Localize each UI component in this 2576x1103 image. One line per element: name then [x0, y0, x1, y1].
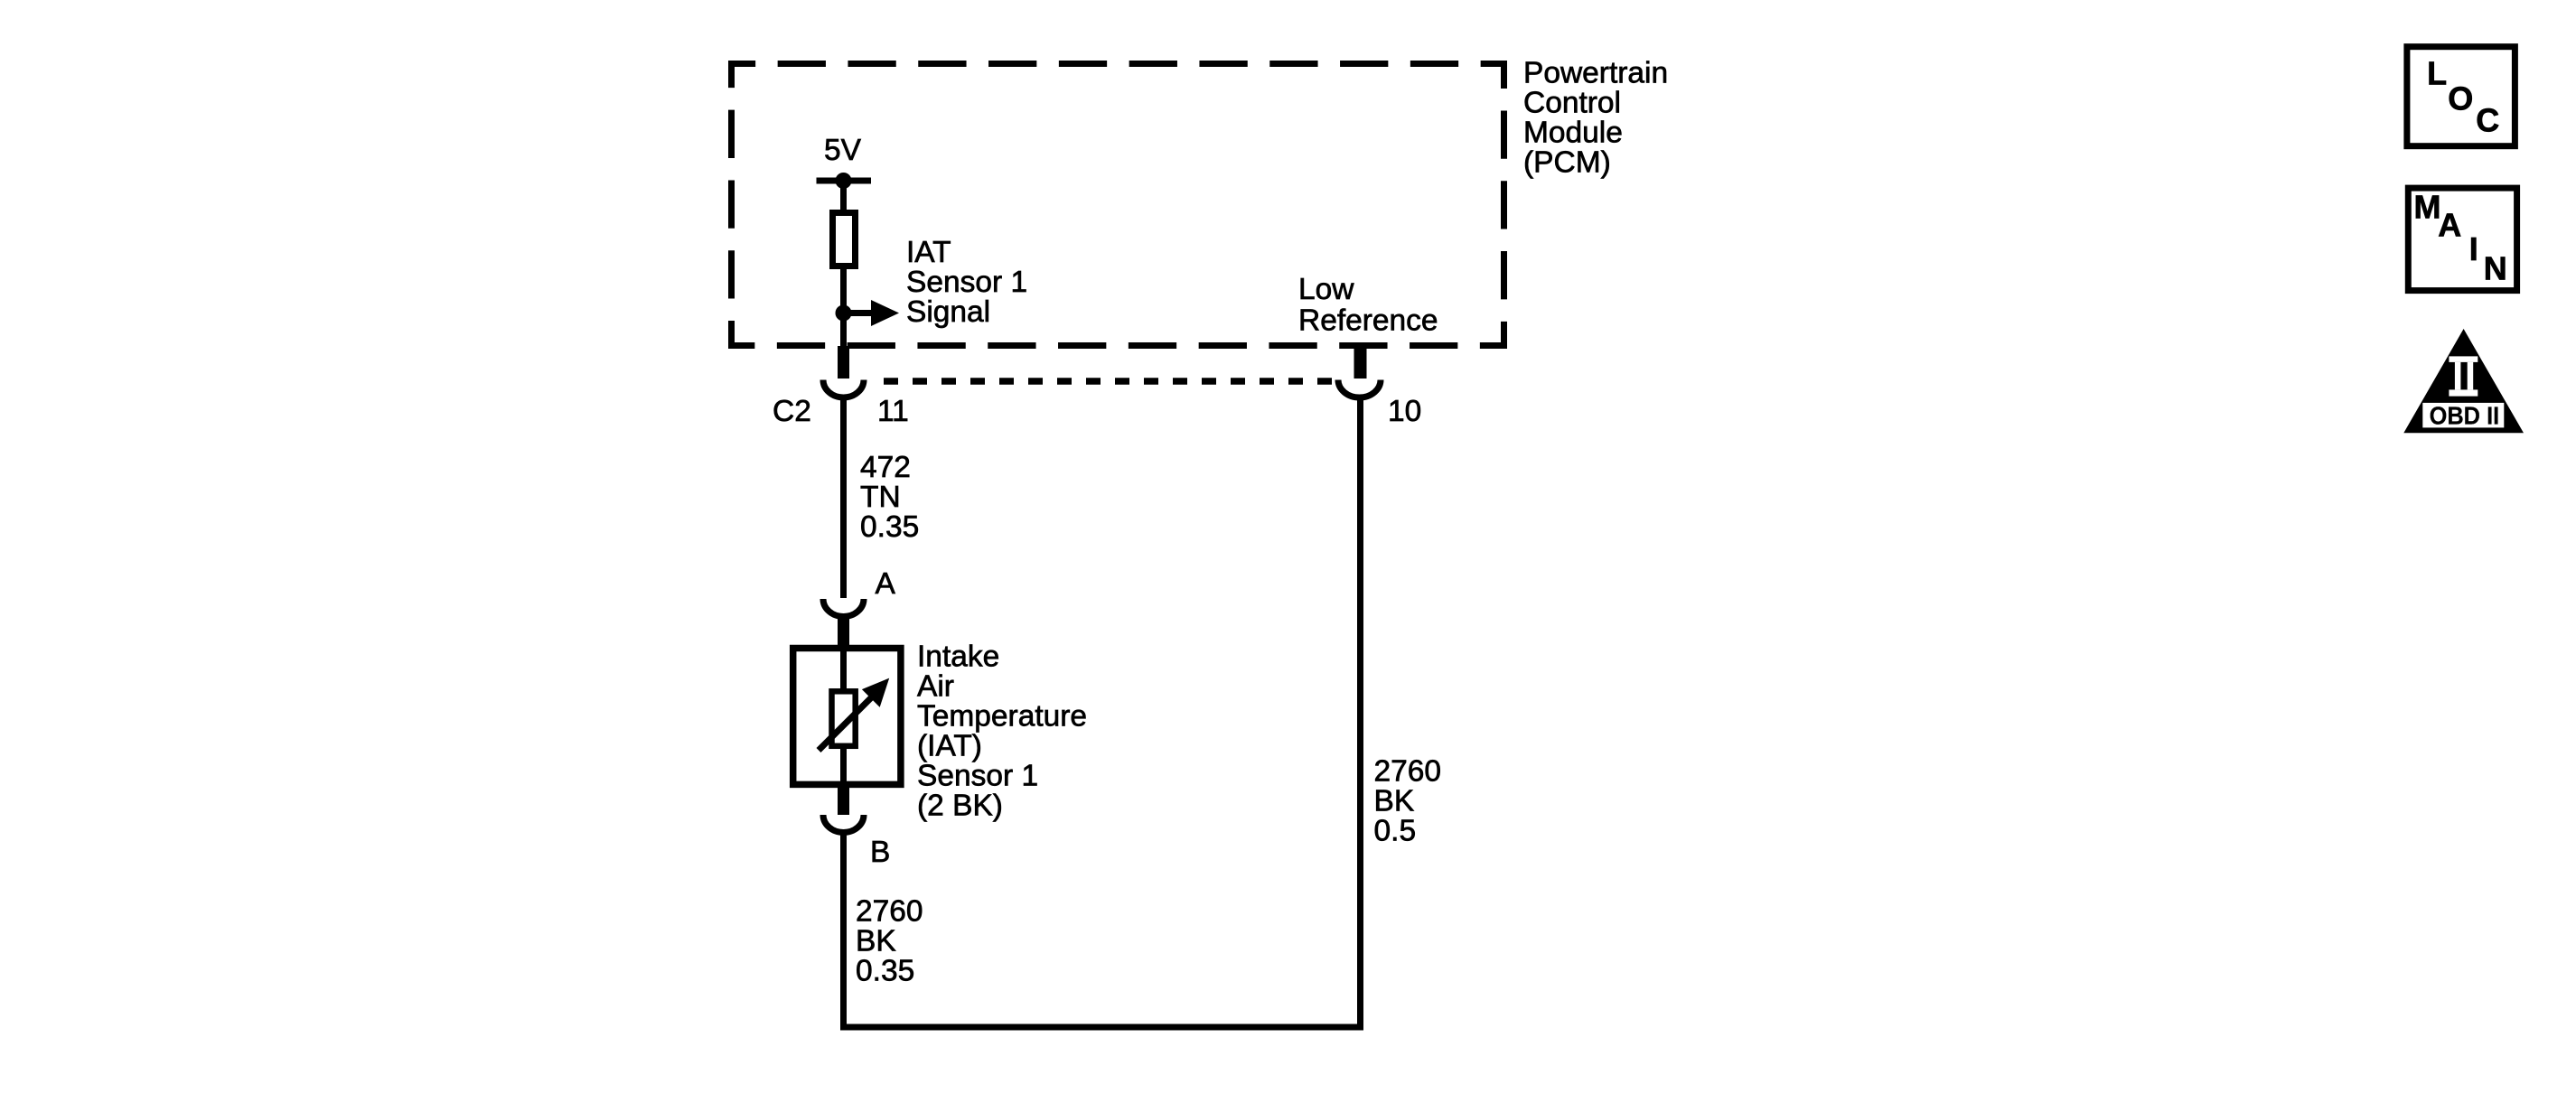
svg-text:Powertrain: Powertrain: [1523, 57, 1668, 90]
svg-text:C: C: [2476, 102, 2499, 139]
svg-text:BK: BK: [856, 925, 896, 958]
svg-text:(PCM): (PCM): [1523, 146, 1611, 180]
svg-text:BK: BK: [1374, 785, 1415, 818]
svg-text:Sensor 1: Sensor 1: [917, 760, 1038, 793]
svg-text:Signal: Signal: [906, 295, 990, 329]
svg-text:10: 10: [1388, 395, 1421, 428]
svg-text:5V: 5V: [824, 134, 862, 167]
svg-text:2760: 2760: [1374, 755, 1442, 789]
svg-text:11: 11: [877, 395, 909, 428]
svg-text:OBD II: OBD II: [2430, 401, 2500, 429]
svg-text:Intake: Intake: [917, 640, 999, 674]
svg-text:B: B: [870, 836, 890, 869]
svg-text:(2 BK): (2 BK): [917, 790, 1003, 823]
svg-text:C2: C2: [773, 395, 811, 428]
svg-text:2760: 2760: [856, 895, 923, 929]
svg-text:Sensor 1: Sensor 1: [906, 266, 1027, 299]
svg-text:L: L: [2427, 55, 2447, 92]
svg-text:Low: Low: [1298, 273, 1354, 306]
svg-text:0.5: 0.5: [1374, 815, 1417, 848]
svg-text:Temperature: Temperature: [917, 700, 1087, 734]
svg-text:0.35: 0.35: [860, 510, 919, 544]
svg-text:Control: Control: [1523, 87, 1621, 120]
svg-text:N: N: [2484, 250, 2507, 287]
svg-text:0.35: 0.35: [856, 955, 914, 988]
svg-text:Module: Module: [1523, 117, 1623, 150]
svg-text:I: I: [2469, 230, 2478, 267]
svg-text:IAT: IAT: [906, 236, 951, 269]
svg-text:Reference: Reference: [1298, 304, 1438, 338]
svg-text:Air: Air: [917, 670, 954, 704]
svg-text:472: 472: [860, 451, 911, 484]
svg-text:A: A: [876, 567, 896, 601]
svg-text:(IAT): (IAT): [917, 730, 982, 763]
svg-text:TN: TN: [860, 481, 901, 514]
svg-text:O: O: [2448, 79, 2473, 117]
svg-text:M: M: [2414, 189, 2441, 226]
svg-text:A: A: [2438, 207, 2461, 244]
